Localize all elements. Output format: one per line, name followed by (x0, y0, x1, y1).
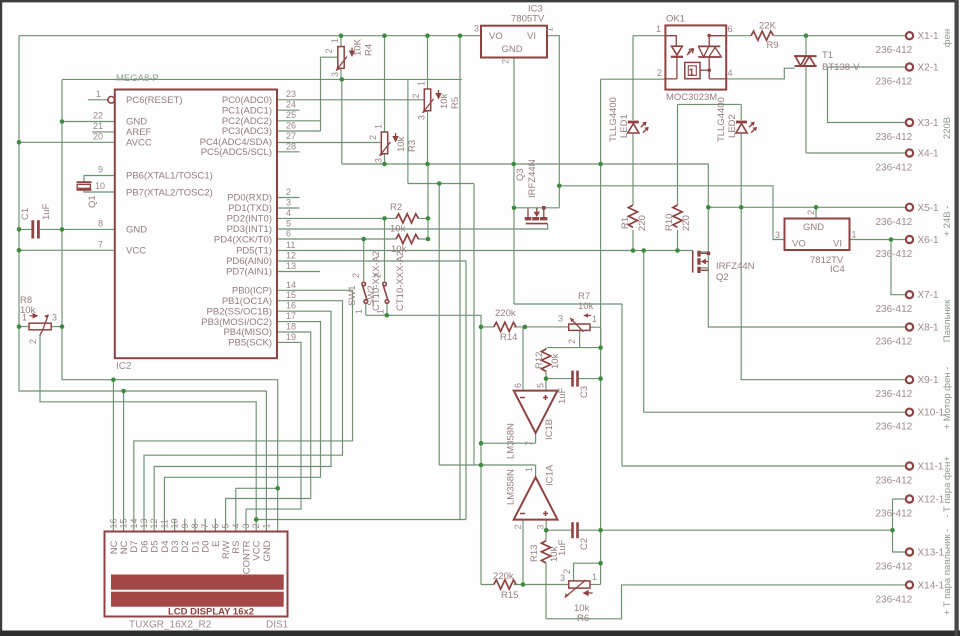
svg-text:R14: R14 (500, 332, 517, 343)
svg-text:15: 15 (119, 518, 129, 528)
svg-text:3: 3 (560, 573, 565, 583)
svg-text:26: 26 (286, 121, 296, 131)
svg-text:X11-1: X11-1 (918, 462, 944, 473)
svg-text:220k: 220k (495, 308, 516, 319)
svg-text:X7-1: X7-1 (918, 290, 940, 301)
svg-text:3: 3 (558, 314, 563, 324)
svg-text:IRFZ44N: IRFZ44N (527, 159, 538, 198)
svg-text:1: 1 (592, 314, 597, 324)
svg-text:C2: C2 (579, 538, 590, 550)
svg-text:X4-1: X4-1 (918, 149, 940, 160)
svg-text:3: 3 (330, 72, 340, 77)
svg-text:1: 1 (524, 467, 534, 472)
svg-text:PB5(SCK): PB5(SCK) (228, 338, 272, 349)
svg-text:2: 2 (324, 48, 334, 53)
svg-text:C1: C1 (20, 208, 31, 220)
svg-text:236-412: 236-412 (876, 509, 913, 520)
svg-text:20: 20 (93, 132, 103, 142)
svg-text:3: 3 (52, 313, 57, 323)
svg-text:GND: GND (262, 540, 273, 561)
svg-text:7: 7 (524, 441, 534, 446)
svg-text:6: 6 (728, 24, 733, 34)
svg-text:236-412: 236-412 (876, 476, 913, 487)
svg-text:24: 24 (286, 100, 296, 110)
svg-text:10k: 10k (439, 93, 450, 109)
svg-text:IC1A: IC1A (545, 464, 556, 486)
svg-text:10K: 10K (353, 38, 364, 56)
svg-text:13: 13 (139, 518, 149, 528)
svg-text:27: 27 (286, 131, 296, 141)
svg-text:PB0(ICP): PB0(ICP) (232, 286, 272, 297)
svg-text:T1: T1 (822, 50, 833, 61)
svg-text:16: 16 (286, 301, 296, 311)
svg-text:X5-1: X5-1 (918, 203, 940, 214)
svg-text:AREF: AREF (126, 127, 152, 138)
svg-text:2: 2 (411, 93, 421, 98)
svg-text:LED1: LED1 (619, 114, 630, 138)
svg-text:CT10-XXX-A2: CT10-XXX-A2 (371, 251, 382, 311)
svg-text:Паяльник: Паяльник (942, 299, 953, 342)
svg-text:5: 5 (536, 383, 546, 388)
svg-text:R4: R4 (364, 44, 375, 56)
svg-text:1: 1 (96, 89, 101, 99)
svg-text:LED2: LED2 (727, 114, 738, 138)
svg-text:220В: 220В (942, 117, 953, 139)
svg-text:R9: R9 (767, 40, 779, 51)
svg-text:PD7(AIN1): PD7(AIN1) (226, 267, 272, 278)
svg-text:9: 9 (98, 165, 103, 175)
svg-text:236-412: 236-412 (876, 217, 913, 228)
svg-text:VO: VO (792, 239, 806, 250)
svg-text:21: 21 (93, 121, 103, 131)
svg-text:R5: R5 (450, 97, 461, 109)
svg-text:11: 11 (159, 519, 169, 528)
svg-text:+ Т пара паяльник -: + Т пара паяльник - (942, 529, 953, 616)
svg-text:3: 3 (286, 198, 291, 208)
svg-text:+ 24В -: + 24В - (942, 206, 953, 237)
svg-text:10k: 10k (390, 224, 406, 235)
svg-text:2: 2 (513, 524, 523, 529)
svg-text:1uF: 1uF (557, 539, 568, 556)
svg-text:10: 10 (170, 518, 180, 528)
svg-text:AVCC: AVCC (126, 138, 152, 149)
svg-text:22K: 22K (759, 21, 777, 32)
svg-text:1: 1 (22, 313, 27, 323)
svg-text:3: 3 (775, 230, 780, 240)
svg-text:12: 12 (149, 518, 159, 528)
svg-text:GND: GND (126, 225, 147, 236)
svg-text:OK1: OK1 (666, 14, 685, 25)
svg-text:TUXGR_16X2_R2: TUXGR_16X2_R2 (129, 620, 212, 631)
svg-text:R1: R1 (620, 217, 631, 229)
svg-text:236-412: 236-412 (876, 249, 913, 260)
svg-text:2: 2 (806, 210, 816, 215)
svg-text:R12: R12 (534, 352, 545, 369)
svg-text:VCC: VCC (126, 246, 146, 257)
svg-text:R6: R6 (577, 613, 589, 624)
svg-text:X6-1: X6-1 (918, 235, 940, 246)
svg-text:Q3: Q3 (515, 168, 526, 181)
svg-text:1: 1 (374, 124, 384, 129)
svg-text:GND: GND (803, 222, 824, 233)
svg-text:Q1: Q1 (87, 195, 98, 208)
svg-text:X1-1: X1-1 (918, 31, 940, 42)
svg-text:11: 11 (286, 240, 295, 250)
svg-text:236-412: 236-412 (876, 337, 913, 348)
svg-text:1: 1 (656, 24, 661, 34)
svg-text:X14-1: X14-1 (918, 580, 945, 591)
svg-text:1: 1 (545, 27, 555, 32)
svg-text:236-412: 236-412 (876, 304, 913, 315)
svg-text:2: 2 (567, 339, 577, 344)
svg-text:C3: C3 (579, 386, 590, 398)
svg-text:236-412: 236-412 (876, 422, 913, 433)
svg-text:22: 22 (93, 111, 103, 121)
svg-text:PC2(ADC2): PC2(ADC2) (222, 116, 272, 127)
svg-text:8: 8 (190, 523, 200, 528)
svg-text:14: 14 (129, 518, 139, 528)
svg-text:PD6(AIN0): PD6(AIN0) (226, 256, 272, 267)
svg-text:5: 5 (221, 523, 231, 528)
svg-text:236-412: 236-412 (876, 594, 913, 605)
svg-text:17: 17 (286, 311, 296, 321)
svg-text:3: 3 (241, 523, 251, 528)
svg-text:18: 18 (286, 322, 296, 332)
svg-text:X9-1: X9-1 (918, 375, 940, 386)
svg-text:фен: фен (942, 29, 953, 47)
svg-text:236-412: 236-412 (876, 132, 913, 143)
svg-text:LM358N: LM358N (506, 423, 517, 459)
svg-text:PB6(XTAL1/TOSC1): PB6(XTAL1/TOSC1) (126, 171, 213, 182)
svg-text:2: 2 (351, 273, 361, 278)
svg-text:R2: R2 (390, 202, 402, 213)
svg-text:6: 6 (513, 383, 523, 388)
svg-text:2: 2 (657, 68, 662, 78)
svg-text:236-412: 236-412 (876, 163, 913, 174)
svg-text:PB2(SS/OC1B): PB2(SS/OC1B) (207, 306, 272, 317)
svg-text:10k: 10k (396, 136, 407, 152)
svg-text:220: 220 (637, 215, 648, 231)
svg-text:X12-1: X12-1 (918, 495, 945, 506)
svg-text:236-412: 236-412 (876, 562, 913, 573)
svg-text:15: 15 (286, 290, 296, 300)
svg-text:10k: 10k (578, 301, 594, 312)
svg-text:7: 7 (98, 240, 103, 250)
svg-text:4: 4 (231, 523, 241, 528)
svg-text:8: 8 (98, 219, 103, 229)
svg-text:PD2(INT0): PD2(INT0) (227, 214, 272, 225)
svg-text:X13-1: X13-1 (918, 548, 945, 559)
svg-text:13: 13 (286, 261, 296, 271)
svg-text:236-412: 236-412 (876, 389, 913, 400)
svg-text:7805TV: 7805TV (511, 14, 545, 25)
svg-text:2: 2 (251, 523, 261, 528)
svg-text:X8-1: X8-1 (918, 323, 940, 334)
svg-text:4: 4 (728, 68, 733, 78)
svg-text:3: 3 (417, 115, 427, 120)
svg-text:2: 2 (28, 339, 38, 344)
svg-text:VI: VI (833, 239, 842, 250)
svg-text:PD1(TXD): PD1(TXD) (228, 203, 272, 214)
svg-text:TLLG4400: TLLG4400 (716, 97, 727, 142)
svg-text:IC1B: IC1B (544, 419, 555, 440)
svg-text:MOC3023M: MOC3023M (666, 92, 717, 103)
svg-text:PB4(MISO): PB4(MISO) (223, 327, 272, 338)
svg-text:BT138-V: BT138-V (822, 62, 860, 73)
svg-text:PC1(ADC1): PC1(ADC1) (222, 105, 272, 116)
svg-text:PB1(OC1A): PB1(OC1A) (222, 296, 272, 307)
svg-text:PD4(XCK/T0): PD4(XCK/T0) (214, 235, 272, 246)
svg-text:X10-1: X10-1 (918, 408, 945, 419)
svg-text:9: 9 (180, 523, 190, 528)
svg-text:PC4(ADC4/SDA): PC4(ADC4/SDA) (200, 137, 272, 148)
svg-text:2: 2 (368, 135, 378, 140)
svg-text:1: 1 (689, 67, 695, 79)
svg-text:IC4: IC4 (830, 264, 845, 275)
svg-text:Q2: Q2 (716, 272, 729, 283)
svg-text:2: 2 (501, 59, 511, 64)
svg-text:VO: VO (489, 31, 503, 42)
svg-text:MEGA8-P: MEGA8-P (116, 73, 159, 84)
svg-text:PC3(ADC3): PC3(ADC3) (222, 126, 272, 137)
svg-text:R15: R15 (501, 590, 518, 601)
svg-text:16: 16 (108, 518, 118, 528)
svg-text:1: 1 (330, 38, 340, 43)
svg-text:10k: 10k (550, 353, 561, 369)
svg-text:X3-1: X3-1 (918, 118, 940, 129)
svg-text:1uF: 1uF (557, 387, 568, 404)
svg-text:LM358N: LM358N (506, 469, 517, 505)
svg-text:+ Мотор фен -: + Мотор фен - (942, 367, 953, 430)
svg-text:R3: R3 (407, 140, 418, 152)
svg-text:10: 10 (95, 181, 105, 191)
svg-text:DIS1: DIS1 (266, 620, 289, 631)
svg-text:PC0(ADC0): PC0(ADC0) (222, 95, 272, 106)
svg-text:220: 220 (681, 215, 692, 231)
svg-text:IC2: IC2 (116, 361, 132, 372)
svg-text:3: 3 (536, 524, 546, 529)
svg-text:4: 4 (286, 208, 291, 218)
svg-text:CT10-XXX-A2: CT10-XXX-A2 (395, 251, 406, 311)
svg-text:PB7(XTAL2/TOSC2): PB7(XTAL2/TOSC2) (126, 187, 213, 198)
svg-text:IRFZ44N: IRFZ44N (716, 261, 755, 272)
svg-text:PD0(RXD): PD0(RXD) (227, 193, 272, 204)
svg-text:TLLG4400: TLLG4400 (608, 97, 619, 142)
svg-text:23: 23 (286, 89, 296, 99)
svg-text:1: 1 (592, 572, 597, 582)
svg-text:PD5(T1): PD5(T1) (236, 246, 272, 257)
svg-text:7: 7 (200, 523, 210, 528)
svg-text:2: 2 (286, 187, 291, 197)
svg-text:LCD DISPLAY 16x2: LCD DISPLAY 16x2 (168, 607, 254, 618)
svg-text:X2-1: X2-1 (918, 63, 940, 74)
svg-text:1uF: 1uF (41, 203, 52, 220)
svg-text:28: 28 (286, 142, 296, 152)
svg-text:1: 1 (852, 230, 857, 240)
svg-text:12: 12 (286, 251, 296, 261)
svg-text:PC6(RESET): PC6(RESET) (126, 95, 182, 106)
svg-text:220k: 220k (493, 571, 514, 582)
svg-text:6: 6 (210, 523, 220, 528)
svg-text:236-412: 236-412 (876, 77, 913, 88)
svg-text:PC5(ADC5/SCL): PC5(ADC5/SCL) (201, 147, 272, 158)
svg-text:1: 1 (417, 81, 427, 86)
svg-text:6: 6 (286, 229, 291, 239)
svg-text:3: 3 (374, 158, 384, 163)
svg-text:25: 25 (286, 110, 296, 120)
svg-text:5: 5 (286, 219, 291, 229)
svg-text:236-412: 236-412 (876, 45, 913, 56)
svg-text:VI: VI (527, 31, 536, 42)
svg-text:- Т пара фен+: - Т пара фен+ (942, 456, 953, 518)
svg-text:1: 1 (354, 309, 364, 314)
svg-text:R13: R13 (529, 545, 540, 562)
svg-text:14: 14 (286, 280, 296, 290)
svg-text:PB3(MOSI/OC2): PB3(MOSI/OC2) (201, 317, 272, 328)
svg-text:3: 3 (474, 24, 479, 34)
svg-text:PD3(INT1): PD3(INT1) (227, 224, 272, 235)
svg-text:1: 1 (261, 523, 271, 528)
svg-text:GND: GND (502, 44, 523, 55)
svg-text:19: 19 (286, 332, 296, 342)
svg-text:R10: R10 (664, 214, 675, 231)
svg-text:SW1: SW1 (347, 285, 358, 306)
